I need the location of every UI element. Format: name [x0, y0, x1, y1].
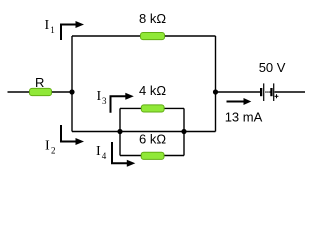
svg-text:1: 1 [50, 25, 55, 35]
resistor R [30, 88, 52, 95]
svg-text:13 mA: 13 mA [225, 109, 263, 124]
wire: inner loop top branch with 4 kOhm [120, 107, 184, 109]
current arrow I2 [61, 125, 77, 142]
svg-text:I: I [45, 139, 50, 154]
battery plus terminal label [275, 95, 279, 97]
current arrow I3 [111, 96, 127, 112]
resistor 6 kOhm [141, 152, 164, 159]
battery V1 positive plate (right cell) [273, 83, 275, 101]
current arrow I1 [61, 25, 77, 41]
wire: right junction to battery [216, 91, 261, 93]
wire: battery to right edge [275, 91, 306, 93]
resistor 4 kOhm [141, 105, 164, 112]
svg-text:2: 2 [51, 146, 56, 156]
wire: left input lead to resistor R [8, 91, 31, 93]
node: junction dot at R branch [69, 89, 74, 94]
wire: inner loop right vertical [183, 108, 185, 155]
wire: outer left vertical branch [71, 36, 73, 132]
resistor 8 kOhm [141, 33, 165, 40]
node: junction dot right rail at battery wire [213, 89, 218, 94]
wire: middle horizontal rail [72, 131, 216, 133]
svg-text:I: I [97, 89, 102, 104]
svg-text:3: 3 [102, 96, 107, 106]
svg-text:50 V: 50 V [259, 60, 286, 75]
battery V1 cell-gap dots [265, 91, 266, 92]
battery V1 negative plate (left cell) [260, 88, 262, 96]
svg-text:4 kΩ: 4 kΩ [139, 83, 166, 98]
battery V1 positive plate (left cell) [263, 83, 265, 101]
svg-text:I: I [45, 18, 50, 33]
battery V1 negative plate (right cell) [270, 88, 272, 96]
wire: inner loop left vertical [119, 108, 121, 155]
current arrow 13 mA [227, 101, 245, 103]
current arrow I4 [112, 142, 128, 163]
svg-text:6 kΩ: 6 kΩ [139, 131, 166, 146]
node: junction dot inner-left on middle rail [117, 129, 122, 134]
wire: inner loop bottom branch with 6 kOhm [120, 155, 184, 157]
wire: top branch with 8 kOhm [72, 35, 216, 37]
svg-text:4: 4 [102, 151, 107, 161]
wire: outer right vertical branch [215, 36, 217, 132]
svg-text:8 kΩ: 8 kΩ [139, 11, 166, 26]
node: junction dot inner-right on middle rail [181, 129, 186, 134]
svg-text:R: R [35, 75, 44, 90]
svg-text:I: I [96, 144, 101, 159]
wire: R to left junction node [51, 91, 72, 93]
